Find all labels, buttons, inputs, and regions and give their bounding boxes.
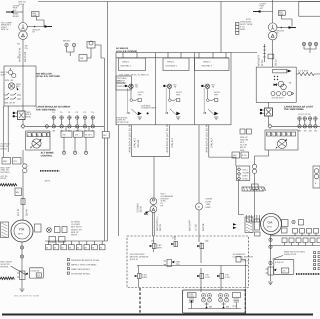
svg-text:ALT 30: ALT 30: [240, 144, 248, 147]
svg-text:TDN: TDN: [206, 203, 211, 206]
svg-text:(L) 3B: (L) 3B: [194, 224, 197, 231]
svg-text:GRID-2: GRID-2: [203, 61, 211, 64]
squiggle resistor to edge: [296, 72, 320, 75]
cell group 1: [188, 293, 197, 298]
wire: [256, 11, 273, 13]
transistor QT6: [217, 273, 223, 278]
fuse F2: [60, 116, 64, 120]
heavy dashed drop center: [139, 288, 141, 315]
connector on wire: [252, 184, 259, 190]
wire below C: [198, 210, 200, 242]
svg-text:GRID-1: GRID-1: [167, 61, 175, 64]
wire: [22, 106, 24, 111]
wire: [9, 11, 24, 13]
diagonal pointer: [11, 266, 27, 275]
svg-text:BN: BN: [209, 306, 212, 309]
top line extension: [231, 52, 257, 54]
svg-text:JA SENSOR: JA SENSOR: [233, 253, 246, 256]
legend connector boxes row: [46, 245, 52, 250]
svg-text:[B]: [B]: [206, 240, 209, 243]
internal bus: [137, 265, 248, 267]
wire from box down: [255, 150, 269, 164]
svg-text:MOL W: MOL W: [1, 28, 9, 31]
fuse FX1: [52, 125, 56, 129]
svg-text:AL 3/4 W: AL 3/4 W: [1, 143, 11, 146]
bus wire right: [272, 125, 320, 127]
svg-text:MM: MM: [3, 160, 7, 163]
svg-text:3/4W) GATE: 3/4W) GATE: [284, 253, 297, 256]
switch S1: [8, 70, 12, 74]
svg-text:M: M: [77, 246, 79, 249]
svg-text:ARM SUPLIR (GY) 3D PA: ARM SUPLIR (GY) 3D PA: [206, 124, 209, 153]
arrow left into pump: [274, 84, 278, 86]
fuse F4: [75, 116, 79, 120]
small box above: [87, 42, 95, 49]
terminals row: [27, 133, 31, 137]
terminal E11: [269, 261, 272, 264]
relay K4: [268, 267, 274, 275]
grid cell 1: [119, 58, 146, 71]
contact dots: [274, 76, 275, 77]
motor M1: [11, 220, 33, 242]
svg-text:MOL W: MOL W: [1, 71, 9, 74]
rail wire: [106, 2, 108, 242]
svg-text:KM: KM: [233, 154, 236, 157]
svg-text:BR MOL: BR MOL: [1, 265, 10, 268]
transistor QT1: [150, 243, 156, 248]
svg-text:W 1/4: W 1/4: [19, 3, 25, 6]
terminal E6: [20, 246, 23, 249]
wire to arrow right: [27, 26, 49, 28]
svg-text:DRIV: DRIV: [243, 175, 249, 178]
arrow left A1: [10, 11, 14, 14]
transistor Q4: [200, 242, 202, 243]
aux rect: [62, 227, 67, 233]
side boxes row2: [232, 152, 240, 158]
fuse FX3: [68, 125, 72, 129]
battery cell BT3: [219, 294, 223, 303]
small boxes MM GG: [2, 158, 11, 165]
grid cell 2: [163, 58, 189, 71]
svg-text:M: M: [62, 246, 64, 249]
wire to arrow right: [277, 27, 293, 29]
box U1: [4, 66, 36, 106]
svg-text:3a Pa: 3a Pa: [45, 180, 51, 183]
svg-text:IMPACT GATE OPENING: IMPACT GATE OPENING: [71, 263, 96, 266]
terminal block left: [1, 222, 9, 238]
drop left edge: [118, 125, 120, 236]
wire: [281, 15, 292, 26]
svg-text:M: M: [92, 246, 94, 249]
module box AB: [61, 131, 72, 137]
svg-text:6.2Vp W: 6.2Vp W: [30, 270, 39, 273]
svg-text:ENGINE: ENGINE: [117, 82, 126, 85]
wire: [22, 5, 24, 23]
tiny table: [236, 22, 239, 34]
rail wire: [103, 58, 105, 241]
svg-text:AM 3B: AM 3B: [202, 223, 205, 231]
box KRV: [29, 268, 43, 278]
arrow left A3: [257, 10, 261, 13]
svg-text:A-PA: A-PA: [225, 276, 230, 279]
motor M2: [261, 214, 282, 235]
terminals below modules: [64, 137, 86, 151]
svg-text:ROIN: ROIN: [188, 295, 194, 298]
left rail a: [3, 106, 5, 158]
svg-text:3-2-3 XXX: 3-2-3 XXX: [298, 70, 309, 73]
svg-text:MOL 3/4 W PA ALT 30 BR: MOL 3/4 W PA ALT 30 BR: [14, 295, 40, 298]
svg-text:M: M: [54, 246, 56, 249]
svg-text:3N: 3N: [52, 130, 55, 133]
relay K2: [20, 271, 26, 280]
column circuit 3: [201, 84, 218, 119]
svg-text:AND 3/4: AND 3/4: [240, 138, 249, 141]
inner band line: [116, 57, 229, 59]
svg-text:GG: GG: [14, 160, 18, 163]
lamp L1: [8, 83, 14, 89]
svg-text:A-PA: A-PA: [205, 276, 210, 279]
arrow right A4: [289, 26, 293, 29]
box KRV right: [274, 259, 294, 274]
svg-text:W-P: W-P: [240, 141, 245, 144]
svg-text:MOL PA: MOL PA: [1, 145, 10, 148]
terminal E8: [292, 220, 295, 223]
pump circles: [278, 81, 284, 87]
svg-text:HMB FREQUENCY: HMB FREQUENCY: [71, 268, 91, 271]
diagonal pointer: [273, 256, 284, 260]
svg-text:3/4 P: 3/4 P: [1, 74, 7, 77]
svg-text:NOID: NOID: [26, 115, 32, 118]
svg-text:BR W: BR W: [240, 146, 247, 149]
transistor QT5: [197, 273, 203, 278]
column circuit 2: [163, 84, 180, 119]
svg-text:M: M: [69, 246, 71, 249]
legend list: [67, 259, 69, 261]
svg-text:7A 7A 7A 7A: 7A 7A 7A 7A: [298, 113, 311, 116]
left rail b: [7, 106, 9, 152]
svg-text:IND: IND: [16, 85, 20, 88]
svg-text:WHILE 3/4: WHILE 3/4: [71, 228, 82, 231]
svg-text:W-P MOL: W-P MOL: [1, 171, 11, 174]
svg-text:M: M: [46, 246, 48, 249]
fuse F1: [52, 116, 56, 120]
opto device Q1: [32, 139, 41, 148]
junction diamond: [45, 124, 49, 128]
svg-text:3B 30: 3B 30: [275, 59, 278, 66]
fuse FX7: [298, 125, 302, 129]
dark hatch label2: [0, 277, 14, 279]
svg-text:BN: BN: [226, 306, 229, 309]
svg-text:7PA: 7PA: [138, 93, 143, 96]
svg-text:M: M: [85, 246, 87, 249]
box U4: [256, 67, 296, 102]
box U3: [116, 53, 231, 125]
opto device Q8: [277, 139, 286, 148]
svg-text:ORGN: ORGN: [206, 198, 213, 201]
corner box top-right: [299, 2, 320, 17]
terminal E2: [73, 151, 76, 154]
fuse F6: [91, 116, 95, 120]
wire down from T1: [22, 40, 24, 67]
box dashed: [127, 236, 249, 288]
svg-text:CLASSIF: CLASSIF: [71, 223, 81, 226]
fuse F9: [314, 42, 318, 46]
terminal box right of motor: [282, 220, 289, 227]
svg-text:W 1/4: W 1/4: [261, 59, 264, 66]
svg-text:ALTERN: ALTERN: [71, 221, 80, 224]
side boxes MM GG right: [240, 129, 245, 134]
transistor QT4: [135, 273, 141, 278]
svg-text:W A: W A: [233, 305, 238, 308]
right edge box: [313, 166, 320, 188]
svg-text:GB-1: GB-1: [243, 169, 249, 172]
svg-text:BET WITH: BET WITH: [71, 226, 82, 229]
terminal E3: [84, 151, 87, 154]
svg-text:ARM SUPLIR (GY) 3D PA: ARM SUPLIR (GY) 3D PA: [166, 124, 169, 153]
comb connector: [247, 215, 260, 222]
module box JIK: [74, 131, 83, 137]
terminal E10: [269, 245, 272, 248]
breaker circles on main wire: [23, 164, 27, 168]
svg-text:MTR: MTR: [267, 226, 272, 229]
svg-text:BR BR: BR BR: [63, 40, 70, 43]
battery cell BT2: [208, 294, 212, 303]
svg-text:MC: MC: [103, 134, 107, 137]
wire main continue: [22, 150, 24, 164]
stubs from bus to modules: [66, 126, 89, 131]
svg-text:OUTSIDE-1: OUTSIDE-1: [166, 65, 178, 68]
legend rail: [45, 240, 107, 242]
connector small box: [255, 232, 261, 236]
box U5: [265, 130, 298, 150]
small box2: [79, 55, 87, 62]
svg-text:(PA) ALT: (PA) ALT: [210, 137, 213, 147]
drop col3: [209, 125, 236, 166]
contact row: [4, 93, 22, 95]
svg-text:3N: 3N: [298, 130, 301, 133]
fuse FX4: [75, 125, 79, 129]
battery cell BT4: [225, 294, 229, 303]
wire: [87, 45, 104, 58]
svg-text:RESERVOIR WATER LEVEL: RESERVOIR WATER LEVEL: [71, 259, 100, 262]
svg-text:(PA) ALT: (PA) ALT: [133, 137, 136, 147]
junction diamond: [268, 124, 272, 128]
terminal box right: [35, 224, 42, 232]
breaker sub-box col1: [116, 76, 131, 90]
double wire down: [152, 213, 154, 237]
fuse F3: [68, 116, 72, 120]
svg-text:7PA: 7PA: [214, 93, 219, 96]
svg-text:BR 30: BR 30: [1, 148, 8, 151]
wire: [272, 0, 274, 23]
bus wire: [25, 125, 104, 127]
dark tick row: [40, 170, 59, 172]
gauge row: [271, 92, 275, 96]
terminal E5: [72, 43, 75, 46]
fuse F11: [303, 117, 307, 121]
black arrows: [233, 223, 237, 225]
border top: [38, 1, 320, 3]
fuse F13: [314, 117, 318, 121]
fuse box F20: [278, 11, 285, 16]
svg-text:GA: GA: [268, 221, 274, 225]
heavy dashed drop right: [236, 257, 241, 263]
svg-text:[A]: [A]: [173, 237, 176, 240]
svg-text:9-7A: 9-7A: [242, 154, 247, 157]
svg-text:3B PA: 3B PA: [71, 234, 78, 237]
transformer T3: [268, 23, 277, 32]
grid cell 3: [195, 58, 230, 71]
svg-text:AC MALICE: AC MALICE: [116, 47, 129, 50]
ground: [20, 289, 25, 291]
svg-text:MOL 3/4: MOL 3/4: [5, 79, 14, 82]
svg-text:ARM SUPLIR (GY) 3D PA: ARM SUPLIR (GY) 3D PA: [129, 124, 132, 153]
fuse F8: [308, 42, 312, 46]
svg-text:3N: 3N: [314, 130, 317, 133]
fuse FX5: [83, 125, 87, 129]
fuse rect on wire: [21, 199, 25, 205]
terminal E4: [65, 43, 68, 46]
svg-text:WIZARD-1: WIZARD-1: [121, 65, 132, 68]
svg-text:ACAL S.D. PATCHIM: ACAL S.D. PATCHIM: [37, 75, 60, 78]
svg-text:BRKR: BRKR: [13, 15, 19, 18]
inner rect: [273, 69, 287, 73]
arrow mark: [17, 87, 19, 91]
mid device on bus: [167, 260, 172, 267]
svg-text:3N HM: 3N HM: [137, 140, 140, 148]
svg-text:THE VIEW PANEL: THE VIEW PANEL: [284, 108, 305, 111]
fuse box F1: [32, 12, 40, 17]
battery cell BT1: [202, 294, 206, 303]
svg-text:ROTATING SPEED: ROTATING SPEED: [71, 272, 90, 275]
svg-text:3N: 3N: [309, 130, 312, 133]
svg-text:MOVTAL SENSOR: MOVTAL SENSOR: [130, 256, 149, 259]
svg-text:BR W: BR W: [1, 177, 8, 180]
border bottom: [2, 314, 313, 316]
svg-text:MOL W: MOL W: [240, 136, 248, 139]
breaker circles right wire: [252, 164, 256, 168]
wire below motor: [21, 242, 23, 288]
junction dot: [34, 26, 36, 28]
svg-text:7PA: 7PA: [176, 93, 181, 96]
stubs: [54, 119, 93, 124]
svg-text:(PA) ALT: (PA) ALT: [171, 137, 174, 147]
fuse F12: [308, 117, 312, 121]
GB column box: [237, 166, 250, 181]
ground: [268, 282, 273, 284]
two small boxes above: [49, 237, 56, 243]
dark hatch label: [0, 184, 17, 186]
fuse FX10: [314, 125, 318, 129]
svg-text:CONTROL: CONTROL: [41, 154, 53, 157]
fuse F10: [298, 117, 302, 121]
connector MH: [15, 188, 22, 196]
aux circle near motor: [47, 228, 52, 233]
drop col1: [132, 125, 154, 198]
svg-text:3B 30 PA: 3B 30 PA: [24, 52, 27, 62]
wire into motor: [254, 213, 256, 217]
svg-text:30PA: 30PA: [157, 246, 163, 249]
svg-text:MH: MH: [16, 191, 20, 194]
svg-text:CONDITIONER: CONDITIONER: [141, 107, 157, 110]
box: [183, 290, 246, 313]
svg-text:GB: GB: [80, 57, 84, 60]
svg-text:M: M: [100, 246, 102, 249]
svg-text:30PA: 30PA: [142, 276, 148, 279]
connector MC: [102, 132, 109, 139]
svg-text:A/C: A/C: [13, 9, 17, 12]
svg-text:ALT W: ALT W: [17, 208, 20, 216]
svg-text:HMG: HMG: [206, 206, 211, 209]
battery bus: [188, 308, 241, 310]
relay K3: [265, 108, 273, 116]
wire below motor right: [270, 235, 272, 282]
svg-text:ALUM: ALUM: [243, 172, 249, 175]
module box AT EFI: [84, 131, 94, 137]
svg-text:THE VIEW PANEL: THE VIEW PANEL: [36, 108, 57, 111]
svg-text:A/C: A/C: [260, 7, 264, 10]
svg-text:S-PL N: S-PL N: [242, 259, 249, 262]
cell group 4: [233, 293, 241, 298]
svg-text:3/4 3/4 3/4 P: 3/4 3/4 3/4 P: [272, 97, 285, 100]
bus rows to right: [271, 235, 320, 237]
svg-text:MTR: MTR: [18, 233, 23, 236]
arrow+ground left: [144, 211, 150, 215]
terminal E9: [269, 238, 272, 241]
breaker C: [196, 203, 203, 210]
dark hatch right: [296, 273, 320, 275]
transformer T1: [19, 23, 28, 32]
svg-text:3B 30: 3B 30: [140, 205, 143, 212]
svg-text:BMW 3/4 PLAY (SAIL: BMW 3/4 PLAY (SAIL: [284, 250, 306, 253]
box row B: [282, 238, 287, 243]
tick rail: [263, 44, 266, 62]
fuse FX9: [308, 125, 312, 129]
wire GB down: [238, 181, 243, 215]
svg-text:3B PA: 3B PA: [26, 209, 29, 216]
aux rect: [55, 227, 61, 233]
relay K1: [18, 111, 26, 120]
svg-text:MOL 3/4 W: MOL 3/4 W: [4, 102, 16, 105]
transistor QT2: [171, 241, 177, 246]
wire: [36, 17, 44, 27]
svg-text:AT EFI: AT EFI: [85, 133, 92, 136]
arrow right A2: [45, 25, 49, 28]
hatched strip: [242, 187, 264, 191]
svg-text:(LEV) N: (LEV) N: [130, 258, 138, 261]
fuse FX2: [60, 125, 64, 129]
fuse F7: [302, 42, 306, 46]
connector on wire: [268, 54, 274, 59]
box row A: [293, 229, 298, 234]
wire: [268, 116, 270, 125]
svg-text:WIZARD-2: WIZARD-2: [202, 65, 213, 68]
legend squares right: [314, 252, 316, 254]
terminal E7: [20, 255, 23, 258]
svg-text:6.2Vp W: 6.2Vp W: [275, 261, 284, 264]
svg-text:3B PA: 3B PA: [159, 224, 162, 231]
circle C branch: [198, 125, 200, 203]
svg-text:GRID-1: GRID-1: [122, 61, 130, 64]
wire T3 down: [272, 40, 274, 67]
fuse F5: [83, 116, 87, 120]
svg-text:HOS NOVOUS: HOS NOVOUS: [130, 253, 145, 256]
box U2: [26, 131, 50, 150]
arrow black: [288, 70, 292, 73]
drop col2: [154, 125, 169, 157]
wire box to main: [22, 66, 24, 106]
svg-text:Y/A: Y/A: [19, 228, 25, 232]
